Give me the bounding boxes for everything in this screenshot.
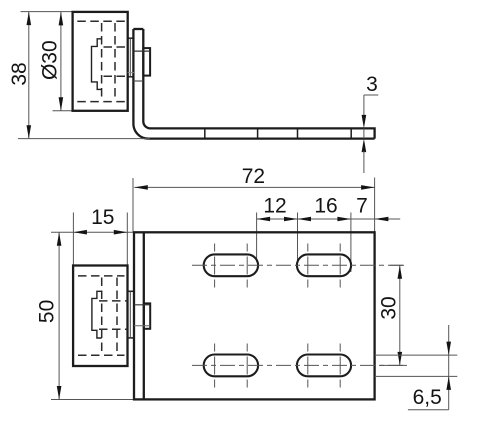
svg-text:6,5: 6,5	[413, 386, 442, 409]
clamp nub (plan view)	[144, 303, 150, 328]
dimension 15 line merged with 50 top extension (plan view)	[51, 206, 134, 265]
svg-text:15: 15	[91, 206, 114, 229]
dimension 38 (side view, left)	[8, 12, 73, 139]
slot edge ticks through plate thickness (side view)	[205, 128, 351, 138]
svg-text:16: 16	[314, 194, 337, 217]
slot hole lower-left	[204, 355, 258, 377]
hidden bore lines in cylinder (side view)	[77, 21, 127, 101]
dimension 6,5 (plan view, bottom right)	[375, 325, 458, 410]
shaft connector lines cylinder-to-plate (plan view)	[128, 291, 135, 338]
clamp nub (side view)	[143, 48, 150, 76]
baseline extension to the left of bend (side view)	[18, 138, 150, 140]
cylinder body (plan view)	[73, 266, 127, 367]
shaft connector lines cylinder-to-upright (side view)	[128, 38, 134, 77]
svg-text:12: 12	[263, 194, 286, 217]
slot hole upper-left	[204, 254, 258, 276]
mounting plate outline (plan view)	[134, 232, 375, 399]
svg-text:30: 30	[378, 296, 401, 319]
dimension 72 (plan view, top)	[133, 165, 375, 232]
svg-text:50: 50	[36, 300, 59, 323]
dimension Ø30 (side view)	[38, 12, 73, 111]
nub seat lines across upright band (plan view)	[134, 305, 150, 326]
hidden bore lines in cylinder (plan view)	[78, 276, 128, 355]
L-bracket outer contour with bend and plate bottom (side view)	[133, 29, 374, 139]
horizontal centerline lower slot row	[192, 364, 407, 366]
bend tangent line on plate (plan view)	[143, 232, 145, 399]
dimension chain 12 / 16 / 7 (plan view)	[257, 194, 401, 272]
L-bracket inner contour, plate top and right end (side view)	[143, 29, 374, 139]
nub seat lines across upright (side view)	[128, 51, 150, 81]
svg-text:72: 72	[242, 165, 265, 188]
clamp step profile (side view)	[92, 39, 102, 90]
svg-text:38: 38	[8, 62, 31, 85]
cylinder body (side view)	[73, 12, 128, 111]
svg-text:Ø30: Ø30	[38, 40, 61, 80]
vertical cap centerlines upper slots	[215, 244, 341, 288]
vertical cap centerlines lower slots	[215, 344, 341, 388]
dimension 50 (plan view, left)	[36, 232, 135, 399]
dimension 3 (plate thickness, side view)	[362, 73, 379, 173]
svg-text:7: 7	[356, 194, 368, 217]
horizontal centerline upper slot row	[192, 264, 404, 266]
slot hole lower-right	[297, 355, 351, 377]
shaft hidden edge vertical (plan view)	[129, 291, 131, 338]
dimension 30 (plan view, right)	[378, 265, 402, 365]
slot hole upper-right	[297, 254, 351, 276]
svg-text:3: 3	[366, 73, 378, 96]
clamp step profile (plan view)	[92, 291, 102, 338]
shaft hidden edge vertical (side view)	[129, 38, 131, 77]
L-bracket upright top edge (side view)	[133, 28, 143, 30]
